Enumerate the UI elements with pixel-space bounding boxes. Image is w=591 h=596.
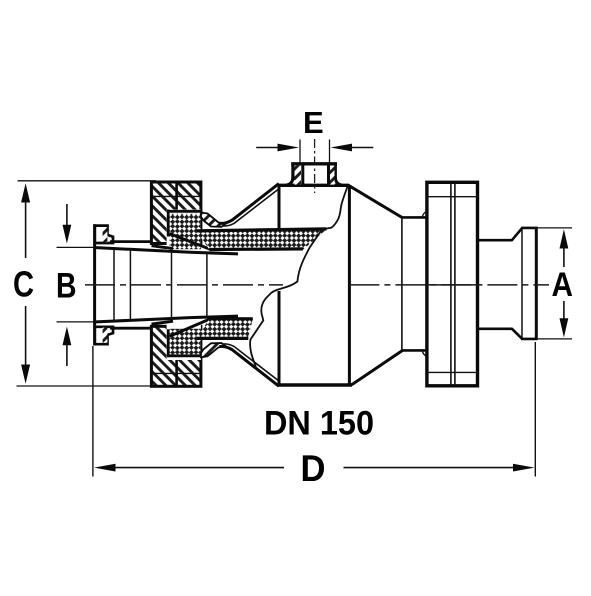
dim B extension line top [57, 246, 97, 248]
bore top line [96, 248, 238, 254]
dim D extension line right [534, 342, 536, 477]
clamp flange bottom block [151, 326, 201, 386]
top port top edge [291, 162, 337, 165]
svg-text:E: E [303, 105, 324, 140]
dim C extension line top [18, 180, 157, 182]
dim D line right with arrow [344, 464, 535, 472]
bore vertical at lip joint [113, 248, 115, 322]
neck top edge [402, 216, 428, 219]
seal strip top lower edge [210, 247, 304, 251]
svg-text:D: D [301, 448, 326, 489]
gasket pocket top fill [170, 214, 201, 249]
ferrule slant top [512, 228, 522, 240]
dim E line left with arrow [256, 144, 299, 152]
cone bottom edge [352, 350, 403, 384]
seal strip bottom [197, 319, 253, 339]
liner end under flange bottom [152, 321, 174, 324]
body bottom edge [278, 383, 353, 386]
dim C arrow up [21, 183, 30, 258]
port lip bottom wall hatch [103, 328, 108, 343]
dim C extension line bottom [17, 385, 153, 387]
gasket pocket bottom wall [167, 329, 170, 356]
liner end under flange top [152, 246, 174, 249]
ferrule slant bottom [512, 328, 522, 338]
dim A arrow up [560, 229, 569, 267]
flange F inner line 2 [454, 182, 456, 385]
cone-neck transition line [401, 218, 403, 350]
tube outer wall bottom [110, 327, 153, 330]
neck-flange fillet bottom [422, 350, 427, 356]
gasket pocket bottom clearing [167, 323, 201, 361]
body shoulder slope outer top [219, 184, 279, 224]
clamp flange top divider [175, 182, 178, 211]
ferrule top edge [521, 227, 538, 230]
port centerline [314, 139, 316, 193]
dim E extension line left [299, 140, 301, 164]
clamp flange bottom groove line [151, 372, 201, 374]
seal strip top upper edge [197, 229, 327, 231]
gasket pocket top clearing [167, 210, 201, 250]
top port bore wall left [301, 164, 304, 187]
bore bottom line [96, 316, 238, 322]
top port left fillet [286, 177, 293, 185]
dim E extension line right [329, 140, 331, 164]
main centerline right [349, 284, 549, 286]
ferrule bottom edge [521, 338, 538, 341]
port lip top outline [95, 226, 113, 243]
bore vertical seam 1 [129, 249, 131, 320]
seal strip bottom upper edge [210, 317, 253, 320]
clamp flange top groove line [151, 195, 201, 197]
outlet cylinder top [478, 239, 513, 242]
liner foot bottom [201, 343, 226, 357]
dim B extension line bottom [57, 321, 97, 323]
neck-flange fillet top [422, 212, 427, 218]
body top edge [278, 184, 349, 187]
tube outer wall top [110, 240, 153, 243]
svg-text:DN 150: DN 150 [264, 405, 374, 443]
dim D line left with arrow [94, 464, 284, 472]
outlet cylinder bottom [478, 327, 513, 330]
dim A extension line bottom [537, 338, 572, 340]
gasket pocket top edge [167, 210, 203, 213]
main centerline left [85, 284, 283, 286]
dim A extension line top [537, 227, 572, 229]
break line (freehand section boundary) [250, 187, 347, 367]
flange F chamfer line bottom [427, 371, 478, 373]
top port wall hatch left [295, 166, 302, 185]
cone top edge [348, 185, 403, 218]
ferrule face [535, 227, 538, 340]
dim D extension line left [92, 346, 94, 477]
gasket pocket top wall [167, 210, 170, 237]
body left edge lower [278, 291, 281, 386]
seal strip top [197, 229, 328, 250]
port lip bottom outline [95, 327, 113, 344]
clamp flange top block [151, 182, 201, 244]
port lip top wall hatch [103, 227, 108, 242]
liner foot top [201, 213, 226, 227]
flange F body [427, 182, 478, 385]
top port wall hatch right [330, 166, 335, 185]
top port bore wall right [327, 164, 330, 187]
clamp flange bottom divider [175, 356, 178, 387]
svg-text:B: B [56, 267, 77, 306]
top port right fillet [335, 177, 342, 185]
ferrule rim line [521, 229, 523, 339]
dim C arrow down [21, 306, 30, 384]
seal strip bottom lower edge [197, 337, 249, 340]
dim A arrow down [560, 301, 569, 338]
gasket pocket bottom edge [167, 354, 203, 357]
flange F inner line 1 [450, 182, 452, 385]
centerline across flange [427, 284, 478, 286]
svg-text:A: A [552, 266, 574, 304]
top port left outer wall [291, 163, 294, 180]
top port right outer wall [334, 163, 337, 180]
body shoulder slope outer bottom [219, 346, 279, 386]
svg-text:C: C [13, 264, 34, 305]
body shoulder slope inner bottom [222, 344, 279, 381]
liner flare bottom [170, 319, 211, 336]
liner flare top [170, 234, 211, 250]
bore vertical seam 3 [206, 253, 208, 317]
bore vertical seam 2 [171, 252, 173, 319]
flange F chamfer line top [427, 196, 478, 198]
gasket pocket bottom fill [170, 329, 201, 356]
dim E line right with arrow [331, 144, 374, 152]
body right edge [348, 186, 351, 385]
body shoulder slope inner top [222, 189, 279, 226]
neck bottom edge [402, 349, 427, 352]
body left edge upper [278, 185, 281, 231]
dim B arrow down [63, 204, 72, 244]
port lip face line [93, 224, 96, 345]
dim B arrow up [63, 327, 72, 367]
